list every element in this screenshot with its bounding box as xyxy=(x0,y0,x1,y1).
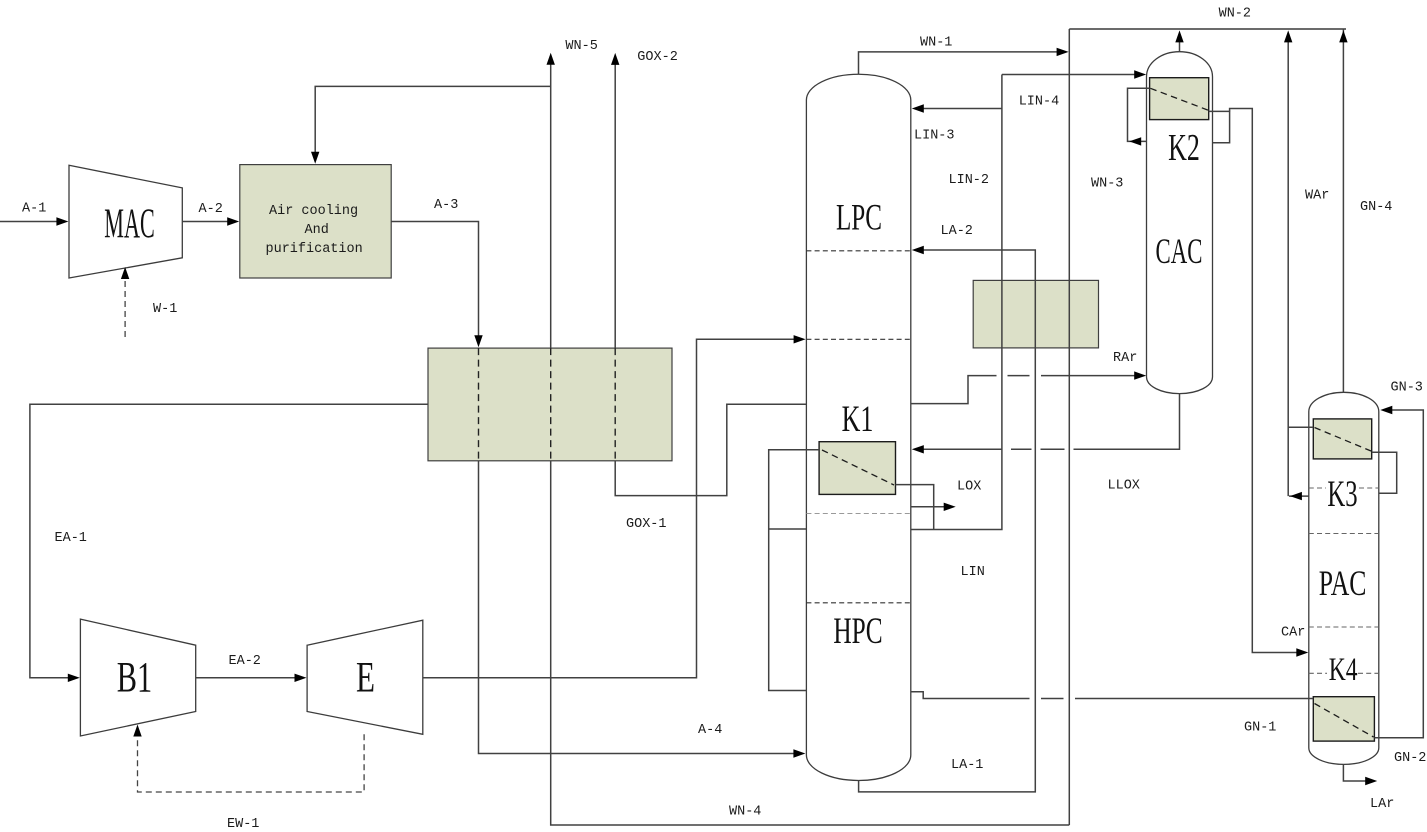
arrowhead LAr xyxy=(1365,777,1377,785)
svg-text:E: E xyxy=(356,655,375,702)
svg-text:W-1: W-1 xyxy=(153,302,177,317)
arrowhead CAr into PAC xyxy=(1296,648,1308,656)
LPC dashed tray line at feed level xyxy=(806,338,910,340)
LPC/HPC column shell xyxy=(806,74,910,780)
booster B1 xyxy=(80,619,195,736)
wire RAr segment 2 xyxy=(1008,375,1030,377)
svg-text:EA-1: EA-1 xyxy=(55,531,87,546)
arrowhead GN-3 into PAC xyxy=(1380,406,1392,414)
arrowhead CAC vent up xyxy=(1175,30,1183,42)
wire EA-1 xyxy=(30,404,428,678)
condenser K4 box xyxy=(1313,697,1374,741)
arrowhead RAr into CAC xyxy=(1134,371,1146,379)
arrowhead WN-5 xyxy=(547,53,555,65)
arrowhead into air box xyxy=(311,152,319,164)
wire regeneration gas to air box xyxy=(315,86,551,153)
K4 dashed diagonal xyxy=(1315,704,1374,738)
PAC dashed line at K3 (left segment) xyxy=(1309,487,1326,489)
wire K3 feed stub xyxy=(1288,426,1313,428)
arrowhead LOX xyxy=(944,503,956,511)
wire K1 side stub xyxy=(769,528,807,530)
HX1 dashed pass GOX xyxy=(614,348,616,461)
svg-text:WN-1: WN-1 xyxy=(920,36,952,51)
wire LIN-3 xyxy=(920,108,1002,110)
arrowhead K2 left loop xyxy=(1129,137,1141,145)
condenser K3 box xyxy=(1313,419,1371,459)
arrowhead A-2 xyxy=(227,217,239,225)
LPC dashed tray line at LA-2 level xyxy=(806,250,910,252)
svg-text:GN-4: GN-4 xyxy=(1360,200,1392,215)
wire LLOX from CAC bottom (segment 1) xyxy=(1074,394,1180,450)
arrowhead WAr up xyxy=(1284,30,1292,42)
svg-text:purification: purification xyxy=(266,242,363,257)
wire A-3 from air box to HX1 xyxy=(391,222,478,338)
svg-text:A-2: A-2 xyxy=(199,202,223,217)
svg-text:GN-2: GN-2 xyxy=(1394,751,1426,766)
wire GOX-1 from HX1 to LPC xyxy=(615,404,806,495)
K1 dashed diagonal xyxy=(822,450,894,485)
svg-text:GOX-1: GOX-1 xyxy=(626,517,667,532)
arrowhead LIN-4 into CAC xyxy=(1134,70,1146,78)
wire CAr from K2 to PAC xyxy=(1230,109,1301,653)
K2 dashed diagonal xyxy=(1150,88,1208,110)
svg-text:GN-3: GN-3 xyxy=(1391,381,1423,396)
arrowhead LA-2 into LPC xyxy=(912,246,924,254)
svg-text:A-3: A-3 xyxy=(434,198,458,213)
wire LLOX segment 2 xyxy=(1041,448,1065,450)
svg-text:WN-2: WN-2 xyxy=(1219,7,1251,22)
arrowhead expander feed into LPC xyxy=(794,335,806,343)
svg-text:LA-2: LA-2 xyxy=(941,224,973,239)
svg-text:B1: B1 xyxy=(117,655,152,702)
svg-text:K3: K3 xyxy=(1327,474,1357,515)
svg-text:LIN-3: LIN-3 xyxy=(914,129,955,144)
wire WN-1 from LPC top xyxy=(859,52,1059,74)
PAC dashed line at K4 (right segment) xyxy=(1358,672,1379,674)
arrowhead LLOX into LPC / K1 xyxy=(912,445,924,453)
wire K2 right loop xyxy=(1209,111,1230,142)
wire RAr from LPC (step) xyxy=(911,376,997,404)
wire LIN vertical xyxy=(911,75,1002,530)
PAC dashed line above K4 xyxy=(1309,626,1379,628)
wire LIN-4 xyxy=(1002,74,1136,76)
wire A-4 from HX1 to HPC xyxy=(479,461,799,754)
wire A-2 xyxy=(182,221,232,223)
wire CAC top vent xyxy=(1179,42,1181,52)
HPC top dashed line xyxy=(806,602,910,604)
wire LLOX segment 3 xyxy=(1011,448,1032,450)
svg-text:A-1: A-1 xyxy=(22,202,46,217)
arrowhead A-1 xyxy=(56,217,68,225)
wire EA-2 xyxy=(196,677,300,679)
svg-text:LOX: LOX xyxy=(957,480,981,495)
PAC dashed line at K4 (left segment) xyxy=(1309,672,1327,674)
wire GN-2 / GN-3 loop from K4 to PAC top xyxy=(1374,410,1423,738)
wire WN trunk vertical xyxy=(1068,29,1070,825)
svg-text:Air cooling: Air cooling xyxy=(269,204,358,219)
PAC dashed line below K3 xyxy=(1309,533,1379,535)
wire LLOX segment 4 xyxy=(921,448,1002,450)
svg-text:LLOX: LLOX xyxy=(1108,479,1140,494)
wire LA riser xyxy=(859,250,1036,792)
wire W-1 dashed xyxy=(124,272,126,337)
arrowhead EA-2 into E xyxy=(295,674,307,682)
arrowhead A-4 xyxy=(793,749,805,757)
LPC gray dashed line below K1 xyxy=(806,513,910,515)
wire K2 left loop from CAC xyxy=(1128,88,1150,141)
wire WN-5 riser xyxy=(550,64,552,348)
arrowhead WN-1 xyxy=(1057,48,1069,56)
svg-text:GN-1: GN-1 xyxy=(1244,721,1276,736)
PAC dashed line at K3 (right segment) xyxy=(1359,487,1379,489)
svg-text:WN-3: WN-3 xyxy=(1091,177,1123,192)
wire GN-1 segment 2 xyxy=(1041,698,1064,700)
compressor MAC xyxy=(69,165,182,278)
svg-text:CAr: CAr xyxy=(1281,626,1305,641)
CAC column shell xyxy=(1147,52,1213,394)
svg-text:LAr: LAr xyxy=(1370,797,1394,812)
arrowhead W-1 xyxy=(121,267,129,279)
wire K3 right loop xyxy=(1372,452,1397,493)
wire LAr from PAC bottom xyxy=(1343,764,1370,781)
svg-text:LIN-2: LIN-2 xyxy=(949,173,990,188)
arrowhead EA-1 into B1 xyxy=(68,674,80,682)
wire WN-2 header xyxy=(1069,28,1346,30)
expander E xyxy=(307,620,423,734)
arrowhead GN-4 up xyxy=(1339,30,1347,42)
arrowhead LIN-3 into LPC xyxy=(912,104,924,112)
wire A-1 feed xyxy=(0,221,61,223)
svg-text:LIN-4: LIN-4 xyxy=(1019,95,1060,110)
svg-text:WN-4: WN-4 xyxy=(729,805,761,820)
svg-text:HPC: HPC xyxy=(833,611,882,652)
svg-text:K2: K2 xyxy=(1168,127,1200,169)
svg-text:EW-1: EW-1 xyxy=(227,817,259,832)
wire GOX-2 riser xyxy=(614,64,616,348)
svg-text:WAr: WAr xyxy=(1305,189,1329,204)
arrowhead A-3 into HX1 xyxy=(474,335,482,347)
svg-text:LIN: LIN xyxy=(961,565,985,580)
wire LOX product xyxy=(911,506,949,508)
arrowhead GOX-2 xyxy=(611,53,619,65)
svg-text:WN-5: WN-5 xyxy=(565,39,597,54)
subcooler heat exchanger xyxy=(973,280,1098,348)
main heat exchanger HX1 xyxy=(428,348,672,461)
wire EW-1 dashed xyxy=(138,731,365,792)
wire K1 feed from line C xyxy=(769,450,819,691)
air cooling and purification box xyxy=(240,165,391,278)
wire expander outlet to LPC feed xyxy=(423,339,798,678)
wire GN-4 riser from PAC top xyxy=(1342,29,1344,393)
svg-text:EA-2: EA-2 xyxy=(229,654,261,669)
svg-text:CAC: CAC xyxy=(1156,231,1203,271)
PAC column shell xyxy=(1309,392,1379,764)
svg-text:MAC: MAC xyxy=(104,202,154,248)
wire WAr riser xyxy=(1287,41,1289,496)
svg-text:A-4: A-4 xyxy=(698,723,722,738)
condenser K2 box xyxy=(1150,78,1209,120)
svg-text:RAr: RAr xyxy=(1113,351,1137,366)
svg-text:LPC: LPC xyxy=(836,198,882,239)
wire GN-1 segment 3 xyxy=(1075,698,1313,700)
K3 dashed diagonal xyxy=(1315,428,1372,452)
HX1 dashed pass WN-5 xyxy=(550,348,552,461)
wire WN-5 lower / WN-4 bottom run xyxy=(551,461,1070,825)
svg-text:PAC: PAC xyxy=(1319,563,1367,603)
wire GN-1 from HPC (segment 1) xyxy=(911,692,1030,699)
svg-text:GOX-2: GOX-2 xyxy=(637,50,678,65)
wire WAr draw from PAC xyxy=(1289,495,1309,497)
arrowhead WAr draw xyxy=(1290,492,1302,500)
svg-text:K4: K4 xyxy=(1329,652,1358,688)
HX1 dashed pass A-3 xyxy=(478,348,480,461)
wire K1 drain to LIN stub xyxy=(896,485,934,530)
svg-text:LA-1: LA-1 xyxy=(951,758,983,773)
condenser K1 box xyxy=(819,442,895,495)
svg-text:And: And xyxy=(305,223,329,238)
svg-text:K1: K1 xyxy=(842,399,874,440)
arrowhead EW-1 into B1 xyxy=(133,725,141,737)
wire RAr segment 3 xyxy=(1041,375,1137,377)
